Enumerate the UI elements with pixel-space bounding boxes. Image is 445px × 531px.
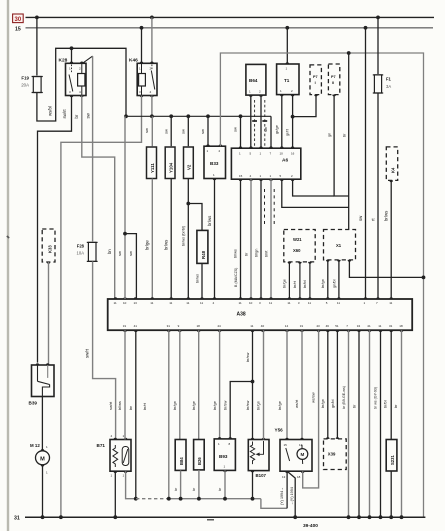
svg-text:F28: F28 — [77, 244, 85, 249]
svg-text:br/gn: br/gn — [320, 399, 325, 408]
wire K28 pin3 to B39 (sw/rt) — [38, 96, 72, 363]
svg-text:31: 31 — [14, 516, 20, 522]
svg-text:ws/sw: ws/sw — [310, 392, 315, 403]
border tick — [7, 236, 9, 238]
sensor B26 — [194, 440, 205, 470]
wire F1 to A38 (rt) — [377, 93, 379, 299]
wire A38 to B107 (br/sw) — [252, 330, 254, 439]
svg-text:10: 10 — [123, 301, 127, 305]
wire B26 to ground — [198, 470, 200, 499]
wire A38 to Y56 (br/ge) — [286, 330, 288, 439]
wire A6 to A38 (br) — [250, 179, 252, 299]
wire B33 pin2 route to right/ground — [220, 53, 423, 517]
wire rail 15 — [26, 27, 434, 29]
junction ground line — [134, 497, 138, 501]
svg-text:sw: sw — [233, 127, 238, 132]
svg-text:14: 14 — [285, 324, 289, 328]
relay K28 — [66, 63, 87, 95]
wire X1 to A38 (br/gn) — [327, 260, 329, 299]
wire to K28 pin 1 — [71, 48, 73, 63]
junction rail15/T1 — [285, 26, 289, 30]
wire A38 to B107 (br/gn) — [263, 330, 265, 439]
ignition coil T1 — [277, 64, 299, 95]
junction rail30/F1 — [376, 16, 380, 20]
wire A6 to A38 (bl/ws) — [240, 179, 242, 299]
wire A6 to A38 (bl/gn) — [260, 179, 262, 299]
svg-text:F19: F19 — [21, 76, 29, 81]
junction V2 wire / R48 branch — [186, 202, 190, 206]
wire B84 to ground — [180, 470, 182, 498]
svg-text:B26: B26 — [197, 457, 202, 465]
svg-text:sw: sw — [358, 215, 363, 221]
wire A38 to S231 — [390, 330, 392, 439]
junction bus/Y104 — [169, 114, 173, 118]
svg-text:V2: V2 — [187, 164, 192, 170]
connector K4 — [386, 147, 397, 181]
svg-text:br/bl: br/bl — [382, 400, 387, 408]
svg-text:sw: sw — [164, 129, 169, 134]
wire bus to Y104 — [170, 116, 172, 146]
svg-text:←(Y) 1994: ←(Y) 1994 — [290, 487, 294, 505]
fuse F1 3A — [374, 75, 381, 93]
wire branch to A38 (sw) — [125, 234, 136, 299]
svg-text:br/ge: br/ge — [212, 401, 217, 410]
svg-text:P7: P7 — [313, 75, 318, 79]
svg-text:Y111: Y111 — [150, 163, 155, 173]
wire K46 pin4 to bus — [151, 96, 153, 117]
wire A6 pin5 to X1 node — [282, 179, 349, 207]
wire bus to B33 pin1 — [207, 116, 209, 146]
wire F19 to K28/bus (ws/bl) — [37, 48, 126, 121]
svg-text:br/ws (br/bl): br/ws (br/bl) — [182, 225, 186, 246]
wire sensor ground line — [166, 498, 261, 500]
valve Y111 — [147, 147, 157, 179]
wire F28 to B71 (sw/rt) — [93, 261, 116, 439]
wire rail 31 — [25, 516, 425, 518]
thermistor element in B71 — [122, 447, 129, 466]
wire K28 switch out diagonal — [83, 56, 93, 63]
wire 30 to K46 pin2 — [151, 17, 153, 63]
svg-text:gr/ge: gr/ge — [274, 125, 279, 134]
svg-text:br/rt: br/rt — [292, 280, 297, 288]
shield dashes A6 wires — [264, 189, 266, 224]
svg-text:51: 51 — [335, 324, 339, 328]
wire A38 to ground line (bn) — [135, 330, 137, 499]
wire rail 30 — [26, 16, 435, 18]
svg-text:ws/bl: ws/bl — [48, 106, 53, 116]
wire T1 to A6 pin5 (gr/ge) — [281, 95, 283, 149]
svg-text:sw: sw — [200, 129, 205, 134]
svg-text:br/sw: br/sw — [223, 401, 228, 410]
valve Y104 — [165, 147, 175, 179]
junction bus/A6 pin1 — [239, 114, 243, 118]
wire M12 to rail31 — [42, 465, 44, 517]
wire A38 to rail31 (br/bl) — [380, 330, 382, 517]
svg-text:F1: F1 — [386, 77, 392, 82]
svg-text:gn: gn — [327, 133, 332, 137]
svg-text:br (B9-GE-ws): br (B9-GE-ws) — [342, 386, 346, 409]
svg-text:P7: P7 — [331, 75, 336, 79]
svg-text:br/ge: br/ge — [282, 279, 287, 288]
junction sw branch — [123, 232, 127, 236]
svg-text:br/ge: br/ge — [145, 240, 150, 250]
wire A38 to B93 (br/ge) — [219, 330, 221, 439]
wire 15 to K46 pin1 — [141, 28, 143, 64]
svg-text:46: 46 — [326, 324, 330, 328]
wire branch to B93 pin2 — [230, 382, 252, 439]
fuse F28 10A — [88, 242, 96, 261]
svg-text:br/bl: br/bl — [302, 280, 307, 288]
svg-text:sw/rt: sw/rt — [108, 401, 113, 410]
pot wiper arrow — [256, 453, 260, 457]
svg-text:bn: bn — [107, 249, 112, 254]
connector X39 — [324, 439, 347, 470]
wire B64 to A6 pin3 — [260, 95, 262, 148]
fuse F19 20A — [33, 77, 41, 93]
svg-text:11: 11 — [308, 301, 311, 305]
svg-text:br/ge: br/ge — [191, 401, 196, 410]
wire A38 to B71 (bl/ws) — [124, 330, 126, 439]
shield dashes B64 wires — [254, 100, 256, 146]
svg-text:bl/ws: bl/ws — [233, 249, 238, 258]
switch B39 — [32, 365, 55, 397]
connector X1 — [324, 230, 356, 260]
svg-text:30: 30 — [15, 17, 22, 23]
wire 30 to F19 — [36, 17, 38, 75]
connector K33 — [42, 229, 55, 262]
svg-text:41: 41 — [367, 324, 371, 328]
junction rail15/A38 feed — [364, 26, 368, 30]
svg-text:B (MA/CZS): B (MA/CZS) — [234, 268, 238, 287]
wire A38 to X39 (br/gn) — [327, 330, 329, 439]
svg-text:bl/gn: bl/gn — [254, 249, 259, 257]
wire A38 to rail31 (br) — [369, 330, 371, 517]
svg-text:br/gn: br/gn — [320, 279, 325, 288]
wire B71 to sensor ground — [126, 471, 136, 499]
svg-text:M: M — [40, 456, 45, 462]
svg-text:11: 11 — [269, 301, 272, 305]
connector W21 / X60 — [284, 230, 315, 262]
valve V2 — [184, 147, 194, 179]
module B64 — [246, 64, 266, 95]
svg-text:16: 16 — [291, 152, 295, 156]
wire B71 to rail31 — [114, 471, 116, 517]
suppressor S231 — [386, 440, 397, 472]
section mark — [207, 519, 214, 521]
svg-text:B84: B84 — [179, 457, 184, 465]
svg-text:A6: A6 — [282, 158, 288, 164]
wire Y56 to rail31 (1994-) — [287, 471, 295, 517]
svg-text:X39: X39 — [328, 452, 336, 457]
wire X1 to right ground route — [349, 260, 423, 278]
control unit A6 — [231, 148, 300, 179]
wire V2 to A38 (br/ws) — [187, 179, 189, 300]
junction rail30/F19 — [35, 16, 39, 20]
svg-text:br: br — [74, 114, 79, 118]
svg-text:sw: sw — [181, 129, 186, 134]
resistor zigzag in B71 — [113, 445, 118, 467]
sensor B84 — [175, 440, 186, 471]
svg-text:sw: sw — [86, 112, 91, 118]
wire supply bus — [126, 115, 271, 117]
svg-text:15: 15 — [239, 174, 243, 178]
wire S231 to rail31 — [390, 471, 392, 517]
svg-text:br/gn: br/gn — [172, 401, 177, 410]
wire T1 to A6 pin6 (gr/rt) — [292, 95, 294, 149]
svg-text:11: 11 — [200, 301, 203, 305]
connector P7 II — [328, 64, 339, 95]
wire Y56 motor return to A38 — [303, 330, 319, 488]
wire K4 to A38 (br/ws) — [390, 180, 392, 299]
junction br/sw branch — [251, 380, 255, 384]
svg-text:18: 18 — [197, 324, 201, 328]
wire Y56 to ground (pre-1994) — [286, 471, 288, 508]
wire bus to A38 (sw) — [124, 116, 126, 299]
junction right route — [422, 276, 426, 280]
junction rail15/K46 coil — [140, 26, 144, 30]
svg-text:10: 10 — [280, 152, 284, 156]
svg-text:B71: B71 — [97, 443, 106, 448]
svg-text:18: 18 — [297, 475, 301, 479]
wire bus to Y111 — [151, 116, 153, 146]
svg-text:31: 31 — [167, 324, 171, 328]
svg-text:34: 34 — [357, 324, 361, 328]
svg-text:11: 11 — [337, 301, 340, 305]
svg-text:41: 41 — [134, 324, 138, 328]
wire K28 pin4 to A38 (bn) — [82, 96, 115, 300]
svg-text:M: M — [300, 452, 304, 457]
svg-text:br/ge: br/ge — [277, 401, 282, 410]
wire X1 to A38 (gn/bl) — [338, 260, 340, 299]
svg-text:B33: B33 — [210, 161, 219, 166]
svg-text:B107: B107 — [256, 473, 267, 478]
svg-text:K33: K33 — [48, 245, 53, 253]
ECU A38 — [108, 299, 413, 330]
svg-text:10A: 10A — [77, 251, 85, 256]
wire B64 to A6 pin2 — [250, 95, 252, 148]
wire to X1 (br) — [348, 53, 350, 230]
svg-text:13: 13 — [282, 475, 286, 479]
wire R48 to A38 (br/ws) — [201, 263, 203, 299]
wire A6 to A38 (bl/rt) — [270, 179, 272, 299]
svg-text:sw: sw — [128, 251, 133, 256]
svg-text:11: 11 — [150, 301, 153, 305]
wire A38 to B84 (br/gn) — [179, 330, 181, 439]
svg-text:gn/bl: gn/bl — [330, 399, 335, 408]
junction K28 pin1 feed — [70, 46, 74, 50]
svg-text:bl/ws: bl/ws — [117, 401, 122, 410]
wire ground to Y56 (pre-1994) — [261, 499, 287, 509]
wire B107 to ground — [252, 471, 254, 499]
sensor B93 — [214, 439, 235, 471]
svg-text:br ws (GY-93): br ws (GY-93) — [373, 387, 377, 409]
svg-text:sw: sw — [144, 128, 149, 133]
svg-text:S231: S231 — [390, 455, 395, 465]
svg-text:31: 31 — [123, 324, 127, 328]
svg-text:sw: sw — [263, 127, 268, 132]
svg-text:br/sw: br/sw — [245, 353, 250, 362]
svg-text:A38: A38 — [237, 312, 246, 318]
junction T1 wire / P7 I — [291, 115, 295, 119]
svg-text:39-400: 39-400 — [303, 523, 318, 529]
wire 15 to T1 — [286, 28, 288, 64]
wire A6 pin6 to X1 node — [293, 179, 335, 196]
svg-text:X60: X60 — [293, 248, 301, 253]
svg-text:B64: B64 — [249, 78, 258, 83]
svg-text:br/ws: br/ws — [383, 211, 388, 221]
svg-text:sw/rt: sw/rt — [62, 109, 67, 119]
svg-text:br/ws: br/ws — [196, 274, 200, 283]
svg-text:11: 11 — [389, 301, 392, 305]
svg-text:40: 40 — [261, 324, 265, 328]
svg-text:20A: 20A — [21, 83, 29, 88]
svg-text:gn/bl: gn/bl — [331, 279, 336, 288]
svg-text:M 12: M 12 — [30, 443, 40, 448]
svg-text:31: 31 — [300, 324, 304, 328]
sensor B71 — [110, 440, 131, 472]
svg-text:Y104: Y104 — [168, 162, 173, 173]
svg-text:43: 43 — [316, 324, 320, 328]
relay K46 — [137, 63, 157, 95]
wire bus to A6 pin1 — [240, 116, 242, 148]
wire A38 to B26 (br/ge) — [198, 330, 200, 439]
sensor B33 — [204, 146, 226, 178]
svg-text:R48: R48 — [201, 250, 206, 259]
svg-text:ws/rt: ws/rt — [294, 399, 299, 408]
wire A38 to rail31 (br) — [358, 330, 360, 517]
resistor R48 — [197, 230, 208, 263]
svg-text:15: 15 — [284, 443, 288, 447]
svg-text:br/ws: br/ws — [164, 240, 169, 250]
svg-text:11: 11 — [250, 324, 253, 328]
svg-text:11: 11 — [378, 324, 381, 328]
svg-text:T1: T1 — [284, 78, 290, 83]
wire A38 to rail31 (br) — [401, 330, 403, 517]
svg-text:15: 15 — [15, 27, 21, 33]
svg-text:B93: B93 — [219, 454, 228, 459]
svg-text:bn: bn — [128, 406, 133, 410]
svg-text:10: 10 — [249, 301, 253, 305]
svg-text:br/ws: br/ws — [207, 216, 212, 226]
wire Y111 to A38 (br/ge) — [151, 179, 153, 300]
terminal 30 symbol (red box) — [13, 14, 24, 23]
wire B33 to A38 (bl/ws) — [214, 179, 216, 300]
wire bus to V2 — [187, 116, 189, 146]
wire sw to F28 — [92, 56, 94, 241]
svg-text:K46: K46 — [129, 58, 138, 64]
sensor B107 throttle pot — [248, 440, 269, 471]
junction rail30/K46 switch — [150, 16, 154, 20]
wire A38 to X39 (gn/bl) — [336, 330, 338, 439]
svg-text:11: 11 — [169, 301, 172, 305]
svg-text:B39: B39 — [29, 400, 38, 405]
svg-text:11: 11 — [287, 301, 290, 305]
svg-text:11: 11 — [114, 301, 117, 305]
junction bus/V2 — [186, 114, 190, 118]
wire B93 to ground — [224, 470, 226, 498]
svg-text:13: 13 — [134, 301, 138, 305]
svg-text:18: 18 — [399, 324, 403, 328]
svg-text:3A: 3A — [386, 84, 391, 89]
svg-text:Y56: Y56 — [275, 428, 284, 433]
A38 bottom pins — [123, 330, 127, 332]
wire K46 coil ground to rail31 — [61, 96, 142, 518]
A38 top pins — [114, 297, 118, 299]
svg-text:sw: sw — [117, 251, 122, 256]
wire P7 I branch — [293, 95, 316, 117]
wire 15 to A38 (sw) — [365, 28, 367, 299]
svg-text:(Y) 1994→: (Y) 1994→ — [280, 487, 284, 505]
svg-text:br/gn: br/gn — [255, 401, 260, 410]
svg-text:bl/rt: bl/rt — [264, 250, 269, 257]
svg-text:K28: K28 — [59, 58, 68, 64]
junction bus/B33 — [206, 114, 210, 118]
wire K33 to B39 — [48, 262, 50, 365]
svg-text:11: 11 — [239, 301, 242, 305]
wire branch to R48 — [188, 204, 202, 231]
svg-text:br/sw: br/sw — [245, 401, 250, 410]
pot track in B107 — [250, 442, 254, 465]
svg-text:I: I — [315, 81, 316, 85]
svg-text:31: 31 — [389, 324, 393, 328]
junction top route / X1 feed — [347, 51, 351, 55]
svg-text:11: 11 — [186, 301, 189, 305]
svg-text:sw/rt: sw/rt — [85, 348, 90, 358]
svg-text:br/rt: br/rt — [142, 402, 147, 410]
svg-text:II: II — [332, 81, 334, 85]
page border left — [7, 0, 9, 531]
wire A38 to rail31 (br) — [348, 330, 350, 517]
svg-text:44: 44 — [217, 324, 221, 328]
wire A38 to Y56 (ws/rt) — [301, 330, 303, 439]
wire bus to A6 pin4 — [270, 116, 272, 148]
wire Y104 to A38 (br/ws) — [170, 179, 172, 300]
svg-text:K4: K4 — [390, 167, 395, 173]
svg-text:W21: W21 — [293, 237, 302, 242]
connector P7 I — [310, 65, 321, 95]
wire 30 to F1 — [377, 17, 379, 74]
svg-text:X1: X1 — [336, 243, 342, 248]
wire P7 II down (gn) — [334, 95, 349, 196]
wire B39 to M12 — [41, 397, 43, 451]
wire A38 to ground (br/gn) — [168, 330, 170, 499]
svg-text:gr/rt: gr/rt — [285, 128, 290, 136]
wire ground dashed segment — [136, 498, 166, 500]
